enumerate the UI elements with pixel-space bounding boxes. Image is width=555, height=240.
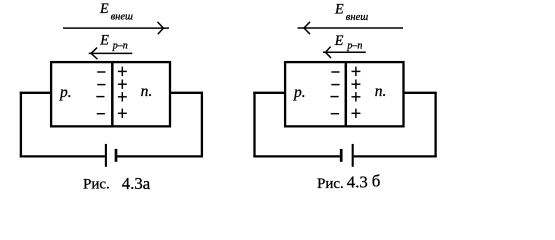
wire left horizontal (fig a) (20, 92, 51, 94)
svg-text:n.: n. (375, 83, 387, 100)
arrow E_vnesh (fig a), pointing right (63, 22, 169, 34)
minus charge 1 (fig a) (97, 71, 105, 73)
svg-text:E: E (334, 33, 344, 49)
wire right horizontal (fig b) (404, 92, 437, 94)
minus charge 1 (fig b) (331, 71, 339, 73)
plus charge 4 (fig a) (118, 109, 127, 118)
wire left vertical (fig a) (20, 92, 22, 158)
svg-text:Рис.: Рис. (83, 176, 110, 192)
minus charge 3 (fig b) (330, 96, 338, 98)
wire right vertical (fig b) (434, 92, 436, 158)
arrow E_vnesh (fig b), pointing left (298, 22, 404, 34)
battery short plate (fig b) (340, 149, 343, 162)
wire right horizontal (fig a) (169, 92, 203, 94)
plus charge 1 (fig b) (352, 67, 361, 76)
svg-text:б: б (372, 171, 381, 190)
junction boundary line (fig b) (345, 62, 348, 126)
svg-text:Рис.: Рис. (317, 176, 344, 192)
wire bottom left segment (fig a) (20, 155, 105, 157)
svg-text:n.: n. (141, 83, 153, 100)
svg-text:p.: p. (293, 84, 306, 101)
arrow E_p-n (fig b), pointing left (323, 47, 366, 58)
svg-text:4.3: 4.3 (347, 173, 368, 192)
battery short plate (fig a) (115, 149, 118, 162)
minus charge 2 (fig b) (331, 84, 339, 86)
junction boundary line (fig a) (111, 62, 114, 126)
minus charge 4 (fig a) (97, 113, 105, 115)
caption Ris. 4.3a (83, 174, 151, 193)
plus charge 2 (fig a) (118, 80, 127, 89)
minus charge 2 (fig a) (97, 84, 105, 86)
wire right vertical (fig a) (201, 92, 203, 158)
svg-text:4.3а: 4.3а (122, 174, 151, 193)
wire left horizontal (fig b) (253, 92, 286, 94)
caption Ris. 4.3 b (317, 171, 380, 192)
plus charge 1 (fig a) (118, 67, 127, 76)
label E_vnesh (fig a) (99, 1, 133, 22)
arrow E_p-n (fig a), pointing left (89, 48, 133, 60)
label E_p-n (fig a) (99, 33, 128, 52)
plus charge 2 (fig b) (352, 80, 361, 89)
svg-text:E: E (99, 33, 109, 49)
plus charge 4 (fig b) (352, 109, 361, 118)
label E_p-n (fig b) (334, 33, 363, 52)
wire left vertical (fig b) (253, 92, 255, 158)
plus charge 3 (fig a) (118, 92, 127, 101)
p-n junction box (fig a) (51, 62, 170, 126)
svg-text:E: E (99, 1, 109, 17)
minus charge 4 (fig b) (331, 113, 339, 115)
battery long plate (fig a) (105, 144, 107, 167)
svg-text:внеш: внеш (111, 12, 133, 23)
wire bottom right segment (fig b) (354, 155, 437, 157)
svg-text:внеш: внеш (346, 12, 368, 23)
battery long plate (fig b) (352, 144, 354, 167)
minus charge 3 (fig a) (96, 96, 104, 98)
svg-text:p–n: p–n (112, 40, 128, 51)
label E_vnesh (fig b) (334, 1, 368, 23)
svg-text:p–n: p–n (346, 41, 362, 52)
plus charge 3 (fig b) (352, 92, 361, 101)
wire bottom left segment (fig b) (253, 155, 340, 157)
p-n junction box (fig b) (285, 62, 403, 126)
svg-text:p.: p. (59, 84, 72, 101)
svg-text:E: E (334, 1, 344, 17)
wire bottom right segment (fig a) (117, 155, 203, 157)
